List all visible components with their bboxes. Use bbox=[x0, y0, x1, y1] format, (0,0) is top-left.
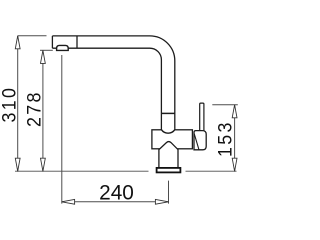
spout outer edge (top + bend + riser right edge) bbox=[52, 36, 174, 130]
dim 153 arrow down bbox=[232, 158, 237, 171]
aerator outlet bump bbox=[57, 45, 69, 50]
lever base cap bbox=[194, 131, 206, 150]
riser interior mask over body top edge bbox=[162, 128, 174, 131]
base column with cone shoulder bbox=[159, 142, 178, 169]
spout head divider bbox=[76, 36, 78, 48]
countertop reference line left segment bbox=[15, 170, 149, 172]
dim 278 line bbox=[42, 50, 44, 171]
dim 153 extension line (lever top) bbox=[212, 104, 238, 106]
svg-text:278: 278 bbox=[23, 90, 45, 127]
dim 240 arrow right bbox=[155, 199, 168, 204]
dim 278 extension line (aerator level) bbox=[40, 49, 53, 51]
lever joint diagonal bbox=[194, 134, 199, 150]
dim 240 line bbox=[62, 201, 169, 203]
spout head left edge bbox=[51, 36, 53, 48]
dim 278 arrow up bbox=[41, 50, 46, 63]
dim 153 line bbox=[234, 105, 236, 171]
riser socket dome bbox=[161, 130, 174, 133]
riser joint line bbox=[161, 112, 174, 114]
dim 240 arrow left bbox=[62, 199, 75, 204]
dim 240 left extension line (aerator axis) bbox=[61, 55, 63, 204]
lever handle bar bbox=[200, 103, 204, 131]
spout inner edge (bottom + bend + riser left edge) bbox=[52, 48, 161, 130]
dim 153 arrow up bbox=[232, 105, 237, 118]
dim 278 arrow down bbox=[41, 158, 46, 171]
dim 240 right extension line (faucet axis) bbox=[168, 181, 170, 204]
dim 310 arrow down bbox=[15, 158, 20, 171]
faucet body housing bbox=[152, 130, 193, 149]
dim 310 line bbox=[17, 36, 19, 171]
svg-text:153: 153 bbox=[213, 120, 235, 157]
countertop reference line right segment bbox=[186, 170, 237, 172]
svg-text:310: 310 bbox=[0, 86, 20, 123]
base flange bbox=[157, 168, 181, 173]
dim 310 arrow up bbox=[15, 36, 20, 49]
svg-text:240: 240 bbox=[99, 182, 134, 205]
dim 310 extension line (spout top) bbox=[18, 35, 47, 37]
